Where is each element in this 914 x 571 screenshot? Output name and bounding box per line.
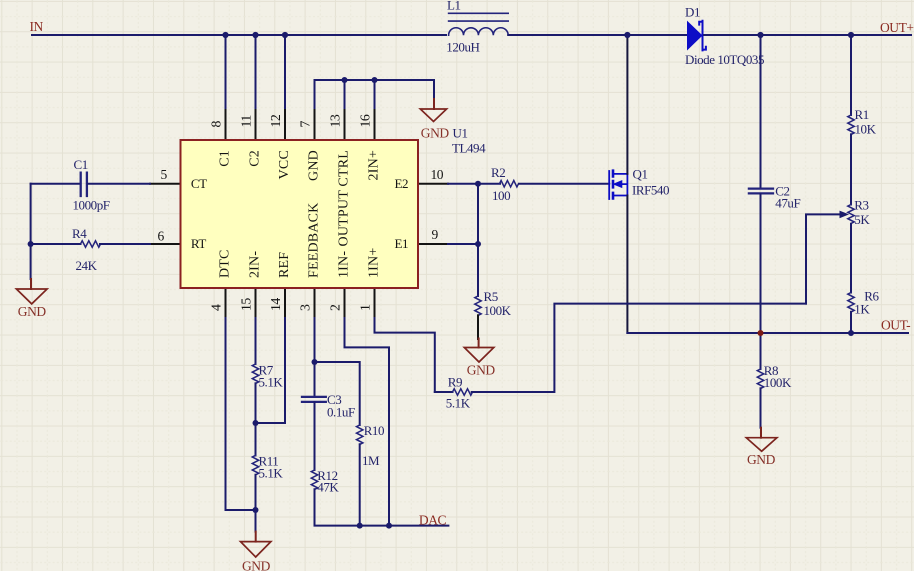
- svg-text:OUT+: OUT+: [880, 20, 914, 35]
- node junction R10/DAC: [357, 523, 363, 529]
- wire pin7/13/16 gnd bus: [315, 80, 435, 110]
- wire R12 to DAC rail corner: [315, 489, 360, 525]
- ground symbol under R5: [478, 339, 480, 348]
- wire R1 riser: [850, 35, 852, 115]
- node junction pin4/R11: [253, 507, 259, 513]
- svg-text:E2: E2: [395, 176, 409, 191]
- svg-text:DTC: DTC: [218, 249, 233, 278]
- wire left vertical C1/R4: [30, 184, 32, 244]
- wire R9 left: [435, 391, 453, 393]
- svg-text:IN: IN: [30, 19, 44, 34]
- resistor R2 zigzag: [500, 181, 519, 187]
- wire R2 to Q1 gate: [519, 183, 609, 185]
- svg-text:OUT-: OUT-: [881, 317, 911, 332]
- svg-text:15: 15: [239, 298, 254, 311]
- wire E2-E1 vertical link: [477, 184, 479, 244]
- resistor R12 zigzag: [311, 470, 317, 490]
- svg-text:2IN-: 2IN-: [248, 251, 263, 278]
- node junction R4/C1: [28, 241, 34, 247]
- svg-text:VCC: VCC: [277, 150, 292, 179]
- svg-text:1IN-: 1IN-: [337, 251, 352, 278]
- pin 10 stub: [418, 183, 448, 185]
- svg-text:GND: GND: [307, 150, 322, 181]
- svg-text:C2: C2: [248, 150, 263, 167]
- node junction pin3: [312, 359, 318, 365]
- wire pin14 drop: [256, 318, 286, 423]
- diode D1 schottky cathode bar: [699, 21, 706, 51]
- wire Q1 source down: [626, 196, 628, 334]
- svg-text:E1: E1: [395, 236, 409, 251]
- svg-text:FEEDBACK: FEEDBACK: [307, 203, 322, 279]
- resistor R10 zigzag: [357, 425, 363, 445]
- pin 13 stub: [344, 110, 346, 140]
- wire pin11 riser: [255, 35, 257, 110]
- svg-text:Q1: Q1: [633, 167, 648, 182]
- node junction C2/OUT- (manual, red): [758, 330, 764, 336]
- node junction R1/rail: [848, 32, 854, 38]
- svg-text:1K: 1K: [854, 301, 870, 316]
- svg-text:GND: GND: [18, 304, 47, 319]
- pin 14 stub: [284, 288, 286, 318]
- node junction drain/rail: [624, 32, 630, 38]
- node junction R6/OUT-: [848, 330, 854, 336]
- svg-text:7: 7: [298, 121, 313, 128]
- node junction pin11/rail: [252, 32, 258, 38]
- svg-text:R5: R5: [484, 289, 498, 304]
- svg-text:U1: U1: [453, 125, 468, 140]
- wire pin3 branch to R10: [315, 362, 360, 425]
- wire IN rail left segment: [32, 34, 446, 36]
- wire R10 to DAC rail: [359, 444, 361, 525]
- pin 16 stub: [374, 110, 376, 140]
- pin 7 stub: [314, 110, 316, 140]
- pin 11 stub: [255, 110, 257, 140]
- svg-text:L1: L1: [447, 0, 461, 13]
- svg-text:R2: R2: [491, 165, 505, 180]
- resistor R6 zigzag: [848, 293, 854, 313]
- svg-text:OUTPUT CTRL: OUTPUT CTRL: [337, 150, 352, 246]
- pin 5 stub: [150, 183, 181, 185]
- wire pin9 to junction: [448, 243, 478, 245]
- svg-text:REF: REF: [277, 252, 292, 278]
- diode D1 body: [687, 21, 703, 51]
- svg-text:8: 8: [209, 121, 224, 128]
- ground symbol bottom-left: [255, 532, 257, 542]
- node junction pin8/rail: [222, 32, 228, 38]
- wire C1 to pin5: [88, 183, 150, 185]
- pin 8 stub: [225, 110, 227, 140]
- svg-text:47K: 47K: [317, 479, 339, 494]
- svg-text:0.1uF: 0.1uF: [327, 405, 355, 420]
- svg-text:100: 100: [492, 188, 510, 203]
- resistor R7 zigzag: [252, 364, 258, 384]
- node junction R7/pin14: [253, 420, 259, 426]
- svg-text:5.1K: 5.1K: [446, 395, 471, 410]
- capacitor C1 plates: [81, 173, 87, 196]
- wire pin4 drop: [226, 318, 256, 510]
- svg-text:DAC: DAC: [419, 512, 447, 527]
- node junction pin13/gndbus: [342, 77, 348, 83]
- svg-text:16: 16: [358, 114, 373, 127]
- wire pin12 riser: [284, 35, 286, 110]
- svg-text:14: 14: [268, 298, 283, 311]
- svg-text:Diode 10TQ035: Diode 10TQ035: [685, 52, 764, 67]
- wire OUT- rail: [627, 332, 908, 334]
- op-amp U1 TL494 body: [181, 140, 419, 288]
- svg-text:GND: GND: [747, 452, 776, 467]
- svg-text:D1: D1: [685, 5, 700, 20]
- Q1 channel segments: [612, 171, 615, 199]
- capacitor C2 plates: [749, 189, 773, 194]
- resistor R11 zigzag: [252, 455, 258, 475]
- svg-text:C1: C1: [218, 150, 233, 167]
- R3 wiper arrow wire: [806, 214, 840, 303]
- wire pin10 to junction: [448, 183, 478, 185]
- wire junction to gnd: [255, 510, 257, 532]
- svg-text:1IN+: 1IN+: [367, 248, 382, 278]
- node junction pin16/gndbus: [372, 77, 378, 83]
- Q1 drain lead: [614, 174, 627, 196]
- ground symbol under R8: [760, 428, 762, 438]
- wire C2 riser: [760, 35, 762, 188]
- wire DAC rail: [360, 525, 449, 527]
- svg-text:TL494: TL494: [452, 141, 486, 156]
- wire R4 left: [31, 243, 81, 245]
- svg-text:5: 5: [161, 167, 168, 182]
- wire pin8 riser: [225, 35, 227, 110]
- svg-text:1: 1: [358, 304, 373, 311]
- wire R8 drop: [760, 333, 762, 369]
- svg-text:R1: R1: [855, 107, 869, 122]
- svg-text:1M: 1M: [362, 453, 380, 468]
- svg-text:3: 3: [298, 304, 313, 311]
- wire R3 to R6: [850, 224, 852, 293]
- wire junction to R11: [255, 423, 257, 455]
- wire left gnd drop: [30, 244, 32, 279]
- node junction C2/rail: [757, 32, 763, 38]
- resistor R5 zigzag: [475, 296, 481, 316]
- svg-text:2: 2: [328, 304, 343, 311]
- svg-text:9: 9: [432, 227, 439, 242]
- inductor L1 coil: [449, 28, 509, 35]
- svg-text:5.1K: 5.1K: [259, 375, 284, 390]
- wire Q1 drain up to rail: [626, 35, 628, 174]
- wire pin13 riser: [344, 80, 346, 110]
- pin 2 stub: [344, 288, 346, 318]
- wire pin16 riser: [374, 80, 376, 110]
- resistor R9 zigzag: [453, 389, 473, 395]
- wire pin15 to R7: [255, 318, 257, 364]
- wire pin1 path to R9: [375, 318, 435, 392]
- svg-text:2IN+: 2IN+: [367, 150, 382, 180]
- pin 6 stub: [150, 243, 181, 245]
- svg-text:10: 10: [431, 167, 444, 182]
- svg-text:5K: 5K: [854, 212, 870, 227]
- svg-text:RT: RT: [191, 236, 206, 251]
- node junction pin12/rail: [282, 32, 288, 38]
- Q1 gate bar: [608, 171, 610, 199]
- svg-text:C1: C1: [74, 157, 88, 172]
- svg-text:1000pF: 1000pF: [73, 198, 110, 213]
- Q1 body arrow: [614, 181, 622, 188]
- svg-text:R10: R10: [364, 423, 384, 438]
- wire R7 to junction: [255, 383, 257, 423]
- wire R1 to R3: [850, 134, 852, 204]
- wire pin3 to junction: [314, 318, 316, 362]
- svg-text:IRF540: IRF540: [632, 183, 669, 198]
- wire pin2 path: [345, 318, 390, 526]
- wire CT row to C1: [31, 183, 80, 185]
- svg-text:6: 6: [158, 229, 165, 244]
- svg-text:GND: GND: [421, 125, 450, 140]
- wire junction to R5: [477, 244, 479, 296]
- svg-text:100K: 100K: [484, 303, 512, 318]
- ground symbol near U1: [433, 99, 435, 109]
- ground symbol left (power port GND): [30, 279, 32, 289]
- svg-text:GND: GND: [242, 558, 271, 571]
- svg-text:4: 4: [209, 304, 224, 311]
- svg-text:10K: 10K: [855, 122, 877, 137]
- resistor R1 zigzag: [848, 115, 854, 135]
- inductor L1 core bars: [449, 13, 509, 21]
- node junction pin2/DAC: [386, 523, 392, 529]
- wire R9 to riser: [472, 304, 806, 392]
- pin 9 stub: [418, 243, 448, 245]
- svg-text:GND: GND: [467, 363, 496, 378]
- pin 12 stub: [284, 110, 286, 140]
- svg-text:11: 11: [239, 115, 254, 128]
- pin 1 stub: [374, 288, 376, 318]
- wire R5 to gnd: [477, 315, 479, 339]
- svg-text:24K: 24K: [76, 258, 98, 273]
- capacitor C3 plates: [302, 397, 326, 402]
- wire C3 to R12: [314, 402, 316, 470]
- svg-text:R4: R4: [72, 226, 87, 241]
- node junction E1 row: [475, 241, 481, 247]
- R3 wiper arrowhead: [840, 211, 850, 219]
- node junction E2 row: [475, 181, 481, 187]
- wire pin3 down to C3: [314, 362, 316, 396]
- wire R8 to gnd: [760, 388, 762, 427]
- resistor R4 zigzag: [81, 241, 101, 247]
- svg-text:R3: R3: [854, 198, 868, 213]
- pin 15 stub: [255, 288, 257, 318]
- svg-text:47uF: 47uF: [775, 195, 800, 210]
- svg-text:100K: 100K: [764, 375, 792, 390]
- svg-text:5.1K: 5.1K: [259, 466, 284, 481]
- resistor R3 zigzag (pot): [848, 205, 854, 224]
- svg-text:12: 12: [268, 114, 283, 127]
- resistor R8 zigzag: [757, 369, 763, 389]
- wire R2 left pin: [478, 183, 500, 185]
- wire C2 down to OUT-: [760, 194, 762, 333]
- svg-text:120uH: 120uH: [446, 39, 479, 54]
- svg-text:CT: CT: [191, 176, 207, 191]
- wire L1 to D1 anode: [508, 34, 687, 36]
- wire R4 to pin6: [100, 243, 150, 245]
- svg-text:13: 13: [328, 114, 343, 127]
- svg-text:R9: R9: [448, 374, 462, 389]
- pin 4 stub: [225, 288, 227, 318]
- wire R6 to OUT-: [850, 312, 852, 333]
- wire R11 to junction: [255, 475, 257, 510]
- pin 3 stub: [314, 288, 316, 318]
- wire D1 cathode to OUT+: [704, 34, 911, 36]
